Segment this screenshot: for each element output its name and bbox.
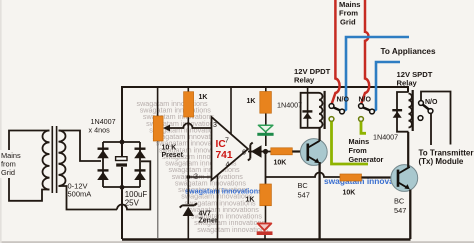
wire: pin 2 to zener node [188, 176, 211, 178]
preset VR1 10K body [153, 116, 163, 141]
diode D2 (bridge bottom-left) [97, 170, 109, 180]
wire: R6 to Q2 base [362, 176, 397, 178]
label: Mains From Generator [349, 137, 384, 164]
transistor Q1 BC547 [300, 139, 327, 166]
wire: op-amp pin3 to preset wiper with hop [169, 123, 212, 128]
label: 12V DPDT Relay [294, 67, 331, 85]
diode D6 1N4007 flyback (RL1) [302, 111, 312, 118]
watermark text block [137, 99, 415, 234]
capacitor C1 100uF 25V [116, 157, 127, 167]
red mains wire 2 with hop over blue wire [361, 0, 369, 104]
node: bridge bottom junction [120, 185, 125, 190]
wire: Q2 collector to RL2 coil [407, 132, 409, 167]
wire: DC+ from bridge to top bus [121, 87, 123, 142]
node: output junction [263, 149, 268, 154]
relay RL1 pole 1 contacts [329, 104, 344, 122]
svg-text:Relay: Relay [294, 76, 315, 85]
svg-text:741: 741 [216, 150, 233, 161]
label: Mains From Grid (top) [339, 0, 361, 27]
preset wiper arrow [163, 125, 170, 132]
svg-text:547: 547 [394, 206, 406, 215]
svg-text:From: From [349, 146, 368, 155]
resistor R2 1K body [260, 92, 272, 114]
label: 1N4007 x 4nos [89, 117, 116, 135]
red mains wire 1 [332, 0, 340, 104]
wire: node to second transistor branch with hop over emitter [266, 173, 341, 178]
relay RL2 core [412, 90, 414, 131]
wire: RL1 coil top lead to bus [307, 87, 309, 128]
svg-text:Generator: Generator [349, 155, 384, 164]
svg-text:4V7: 4V7 [199, 211, 212, 218]
transistor Q2 BC547 [391, 165, 418, 192]
label: IC 741 [216, 139, 233, 161]
wire: AC2 routing with hop over DC- line [117, 161, 150, 209]
svg-text:1K: 1K [247, 98, 256, 105]
svg-text:From: From [339, 9, 358, 18]
transformer T1 primary winding [43, 131, 50, 190]
svg-text:N/O: N/O [425, 99, 438, 106]
label: 12V SPDT Relay [397, 70, 433, 88]
wire: top supply bus [121, 86, 409, 88]
diode D4 (bridge bottom-right) [134, 170, 146, 180]
green generator wire 2 [361, 122, 366, 134]
svg-text:4: 4 [226, 162, 230, 169]
svg-text:1N4007: 1N4007 [277, 101, 302, 110]
svg-text:N/O: N/O [337, 97, 350, 104]
label: To Transmitter (Tx) Module [419, 148, 474, 166]
svg-text:Mains: Mains [349, 137, 370, 146]
svg-text:500mA: 500mA [68, 189, 92, 198]
svg-text:10K: 10K [274, 160, 287, 167]
wire: DC- from bridge to bottom bus [121, 142, 123, 239]
LED red LED2 [257, 223, 273, 235]
label: 4V7 Zener [199, 211, 218, 225]
svg-text:Preset: Preset [162, 152, 184, 159]
label: 0-12V 500mA [68, 182, 92, 199]
svg-text:1K: 1K [199, 94, 208, 101]
resistor R5 10K horizontal [271, 148, 293, 155]
transformer T1 core [52, 126, 56, 193]
pin 4 wire [217, 175, 219, 239]
wire: Q1 emitter to ground bus [318, 162, 320, 239]
blue appliance wire 1 [344, 37, 409, 111]
label: Mains from Grid [1, 151, 21, 177]
svg-text:1K: 1K [246, 197, 255, 204]
svg-text:x 4nos: x 4nos [89, 126, 111, 135]
svg-text:BC: BC [394, 197, 405, 206]
relay RL1 coil (12V DPDT) [301, 93, 323, 128]
svg-text:3: 3 [213, 122, 217, 129]
svg-text:swagatam innovations: swagatam innovations [185, 187, 262, 196]
relay RL2 coil (12V SPDT) [397, 92, 412, 132]
LED green LED1 [257, 125, 273, 136]
svg-text:10K: 10K [343, 190, 356, 197]
svg-text:To Appliances: To Appliances [381, 47, 436, 56]
label: BC 547 (Q1) [298, 181, 310, 200]
preset VR1 bottom lead (thin) [157, 141, 159, 239]
svg-text:Relay: Relay [397, 79, 418, 88]
relay RL1 core [324, 91, 326, 129]
resistor R6 10K horizontal [340, 174, 362, 181]
relay RL2 contacts [418, 101, 433, 121]
resistor R1 1K lead [187, 87, 189, 204]
wire: R4 to red LED [264, 206, 267, 239]
wire: bus corner down to RL2 coil [408, 87, 409, 92]
svg-text:BC: BC [298, 181, 309, 190]
svg-text:7: 7 [225, 138, 229, 145]
resistor R2 1K (to LED green) lead [265, 87, 267, 146]
svg-text:(Tx) Module: (Tx) Module [419, 157, 464, 166]
wire: Q2 emitter to ground bus [409, 190, 411, 240]
svg-text:1N4007: 1N4007 [373, 133, 398, 142]
green generator wire 1 [332, 122, 369, 165]
svg-text:Grid: Grid [340, 18, 356, 27]
diode D1 (bridge top-left) [97, 149, 109, 159]
wire: Q1 collector to relay coil [319, 128, 321, 142]
diode D5 at op-amp output [248, 143, 262, 161]
resistor R1 1K body [184, 92, 194, 117]
resistor R4 1K body (to red LED) [260, 184, 272, 206]
wire: RL2 pole output down [430, 113, 432, 145]
svg-text:25V: 25V [125, 198, 140, 207]
mains input box (Mains from Grid) [0, 131, 50, 201]
blue appliance wire 2 [374, 62, 400, 111]
svg-text:N/O: N/O [359, 97, 372, 104]
svg-text:547: 547 [298, 191, 310, 200]
label: 100uF 25V [125, 190, 148, 207]
transformer T1 secondary winding [59, 131, 66, 187]
wire: op-amp output [248, 151, 271, 153]
label: 10 K Preset [162, 145, 184, 160]
diode D3 (bridge top-right) [134, 149, 146, 159]
svg-text:Zener: Zener [199, 218, 218, 225]
svg-text:6: 6 [242, 150, 246, 157]
op-amp U1 IC741 triangle [212, 117, 249, 180]
wire: secondary top lead to bridge [59, 131, 102, 162]
relay RL1 pole 2 contacts [359, 104, 375, 122]
wire: secondary bottom lead [59, 186, 118, 210]
pin 7 wire [230, 87, 232, 134]
relay RL2 contact wiring [421, 92, 451, 145]
label: BC 547 (Q2) [394, 197, 406, 216]
preset VR1 10K top lead [157, 87, 159, 116]
wire: bottom ground bus [122, 238, 411, 240]
svg-text:Grid: Grid [1, 168, 15, 177]
diode D7 1N4007 flyback (RL2) [392, 110, 402, 118]
node: bridge top junction [120, 140, 125, 145]
svg-text:10 K: 10 K [162, 145, 177, 152]
bridge rectifier frame [103, 142, 140, 187]
wire: R5 to Q1 base [292, 150, 306, 152]
wire: node down to lower branch [265, 152, 267, 185]
zener Z1 4V7 [180, 203, 197, 239]
